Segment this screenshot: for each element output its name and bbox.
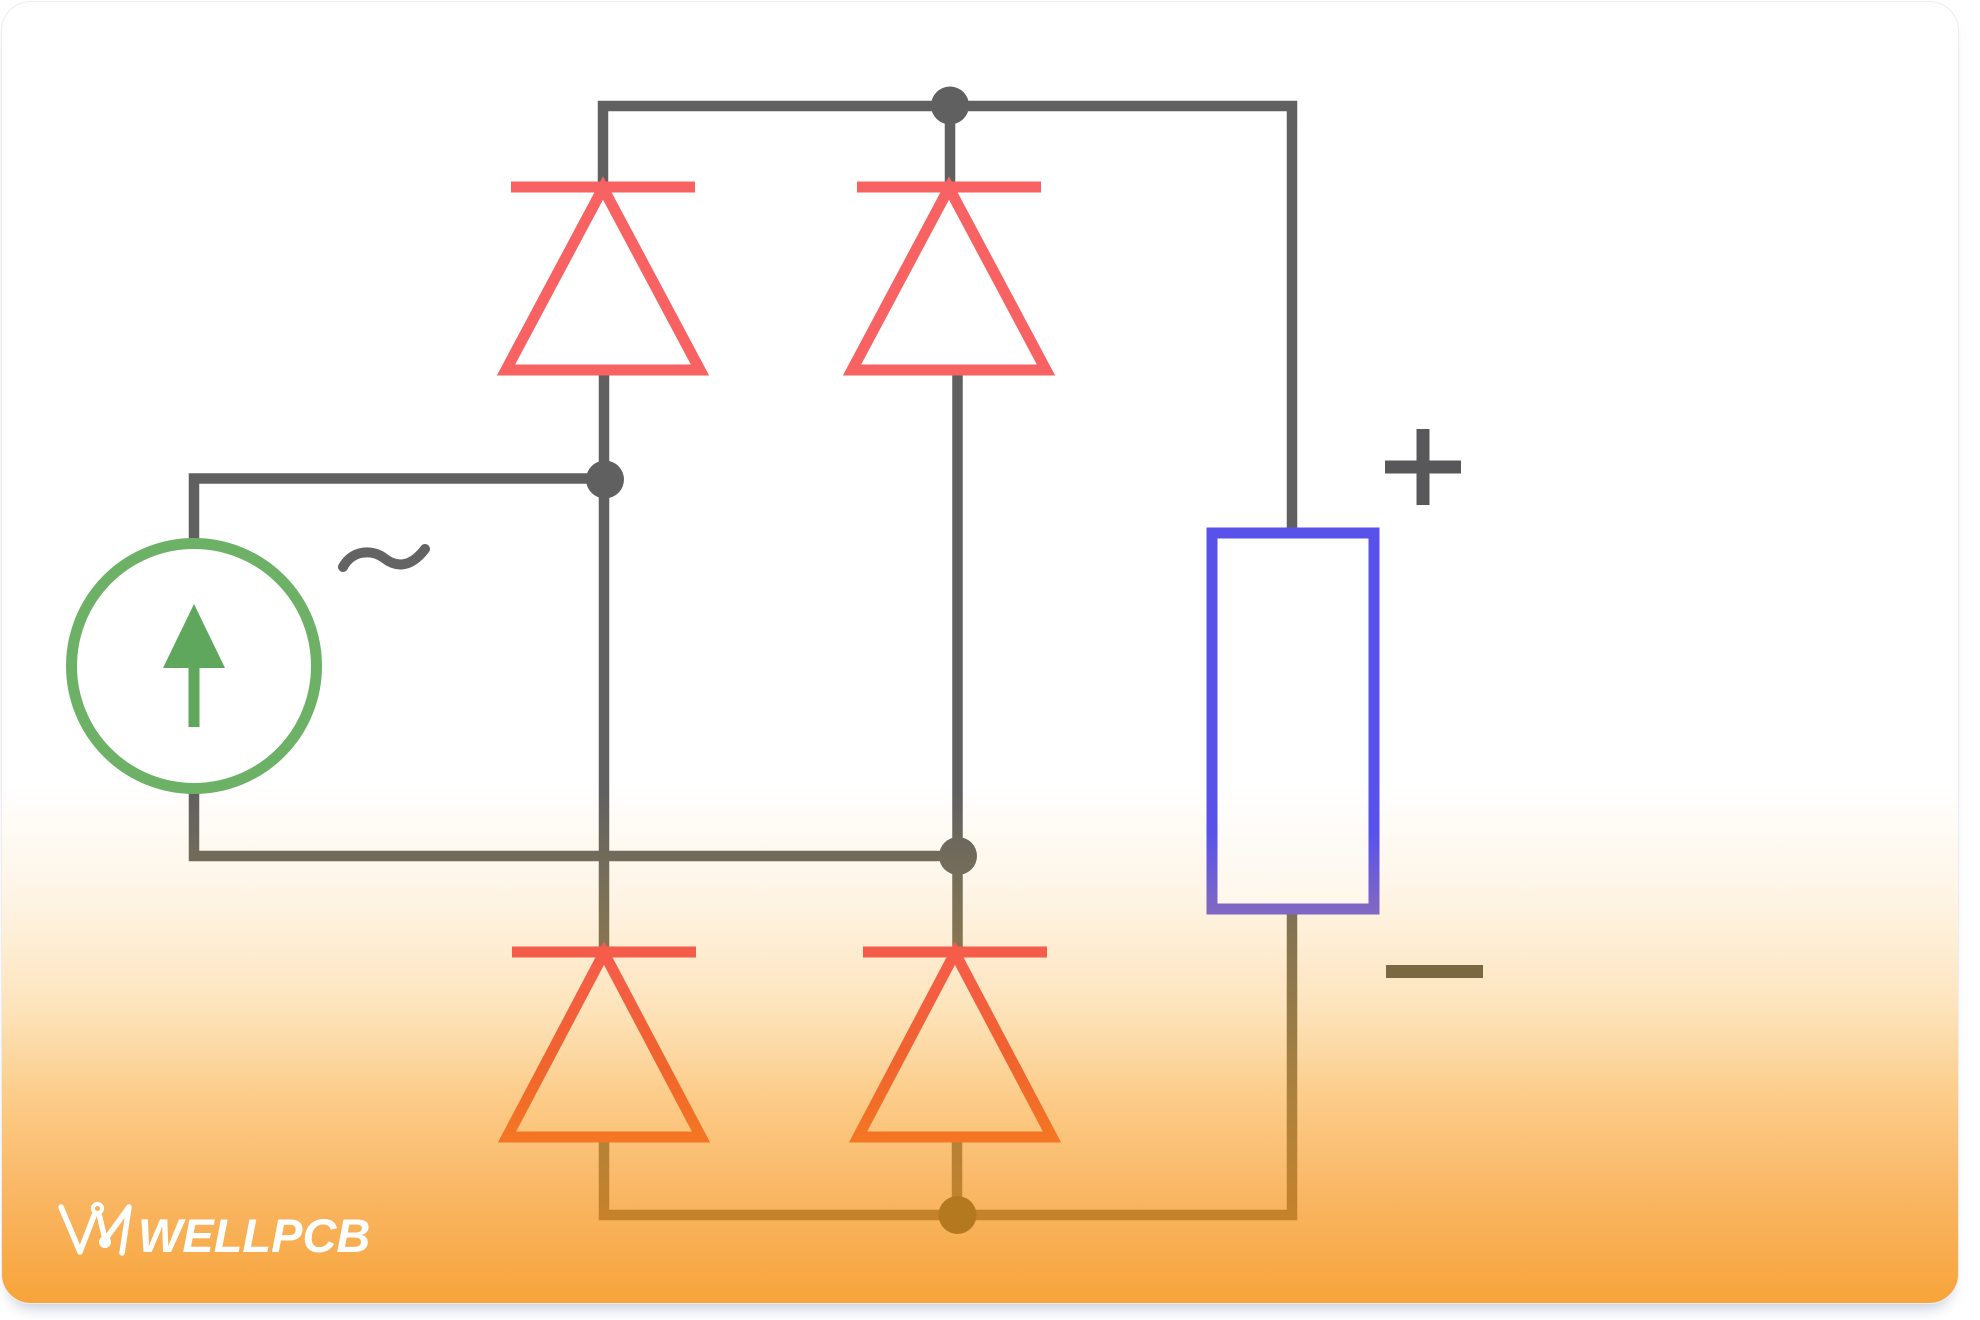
svg-text:WELLPCB: WELLPCB	[138, 1209, 370, 1262]
